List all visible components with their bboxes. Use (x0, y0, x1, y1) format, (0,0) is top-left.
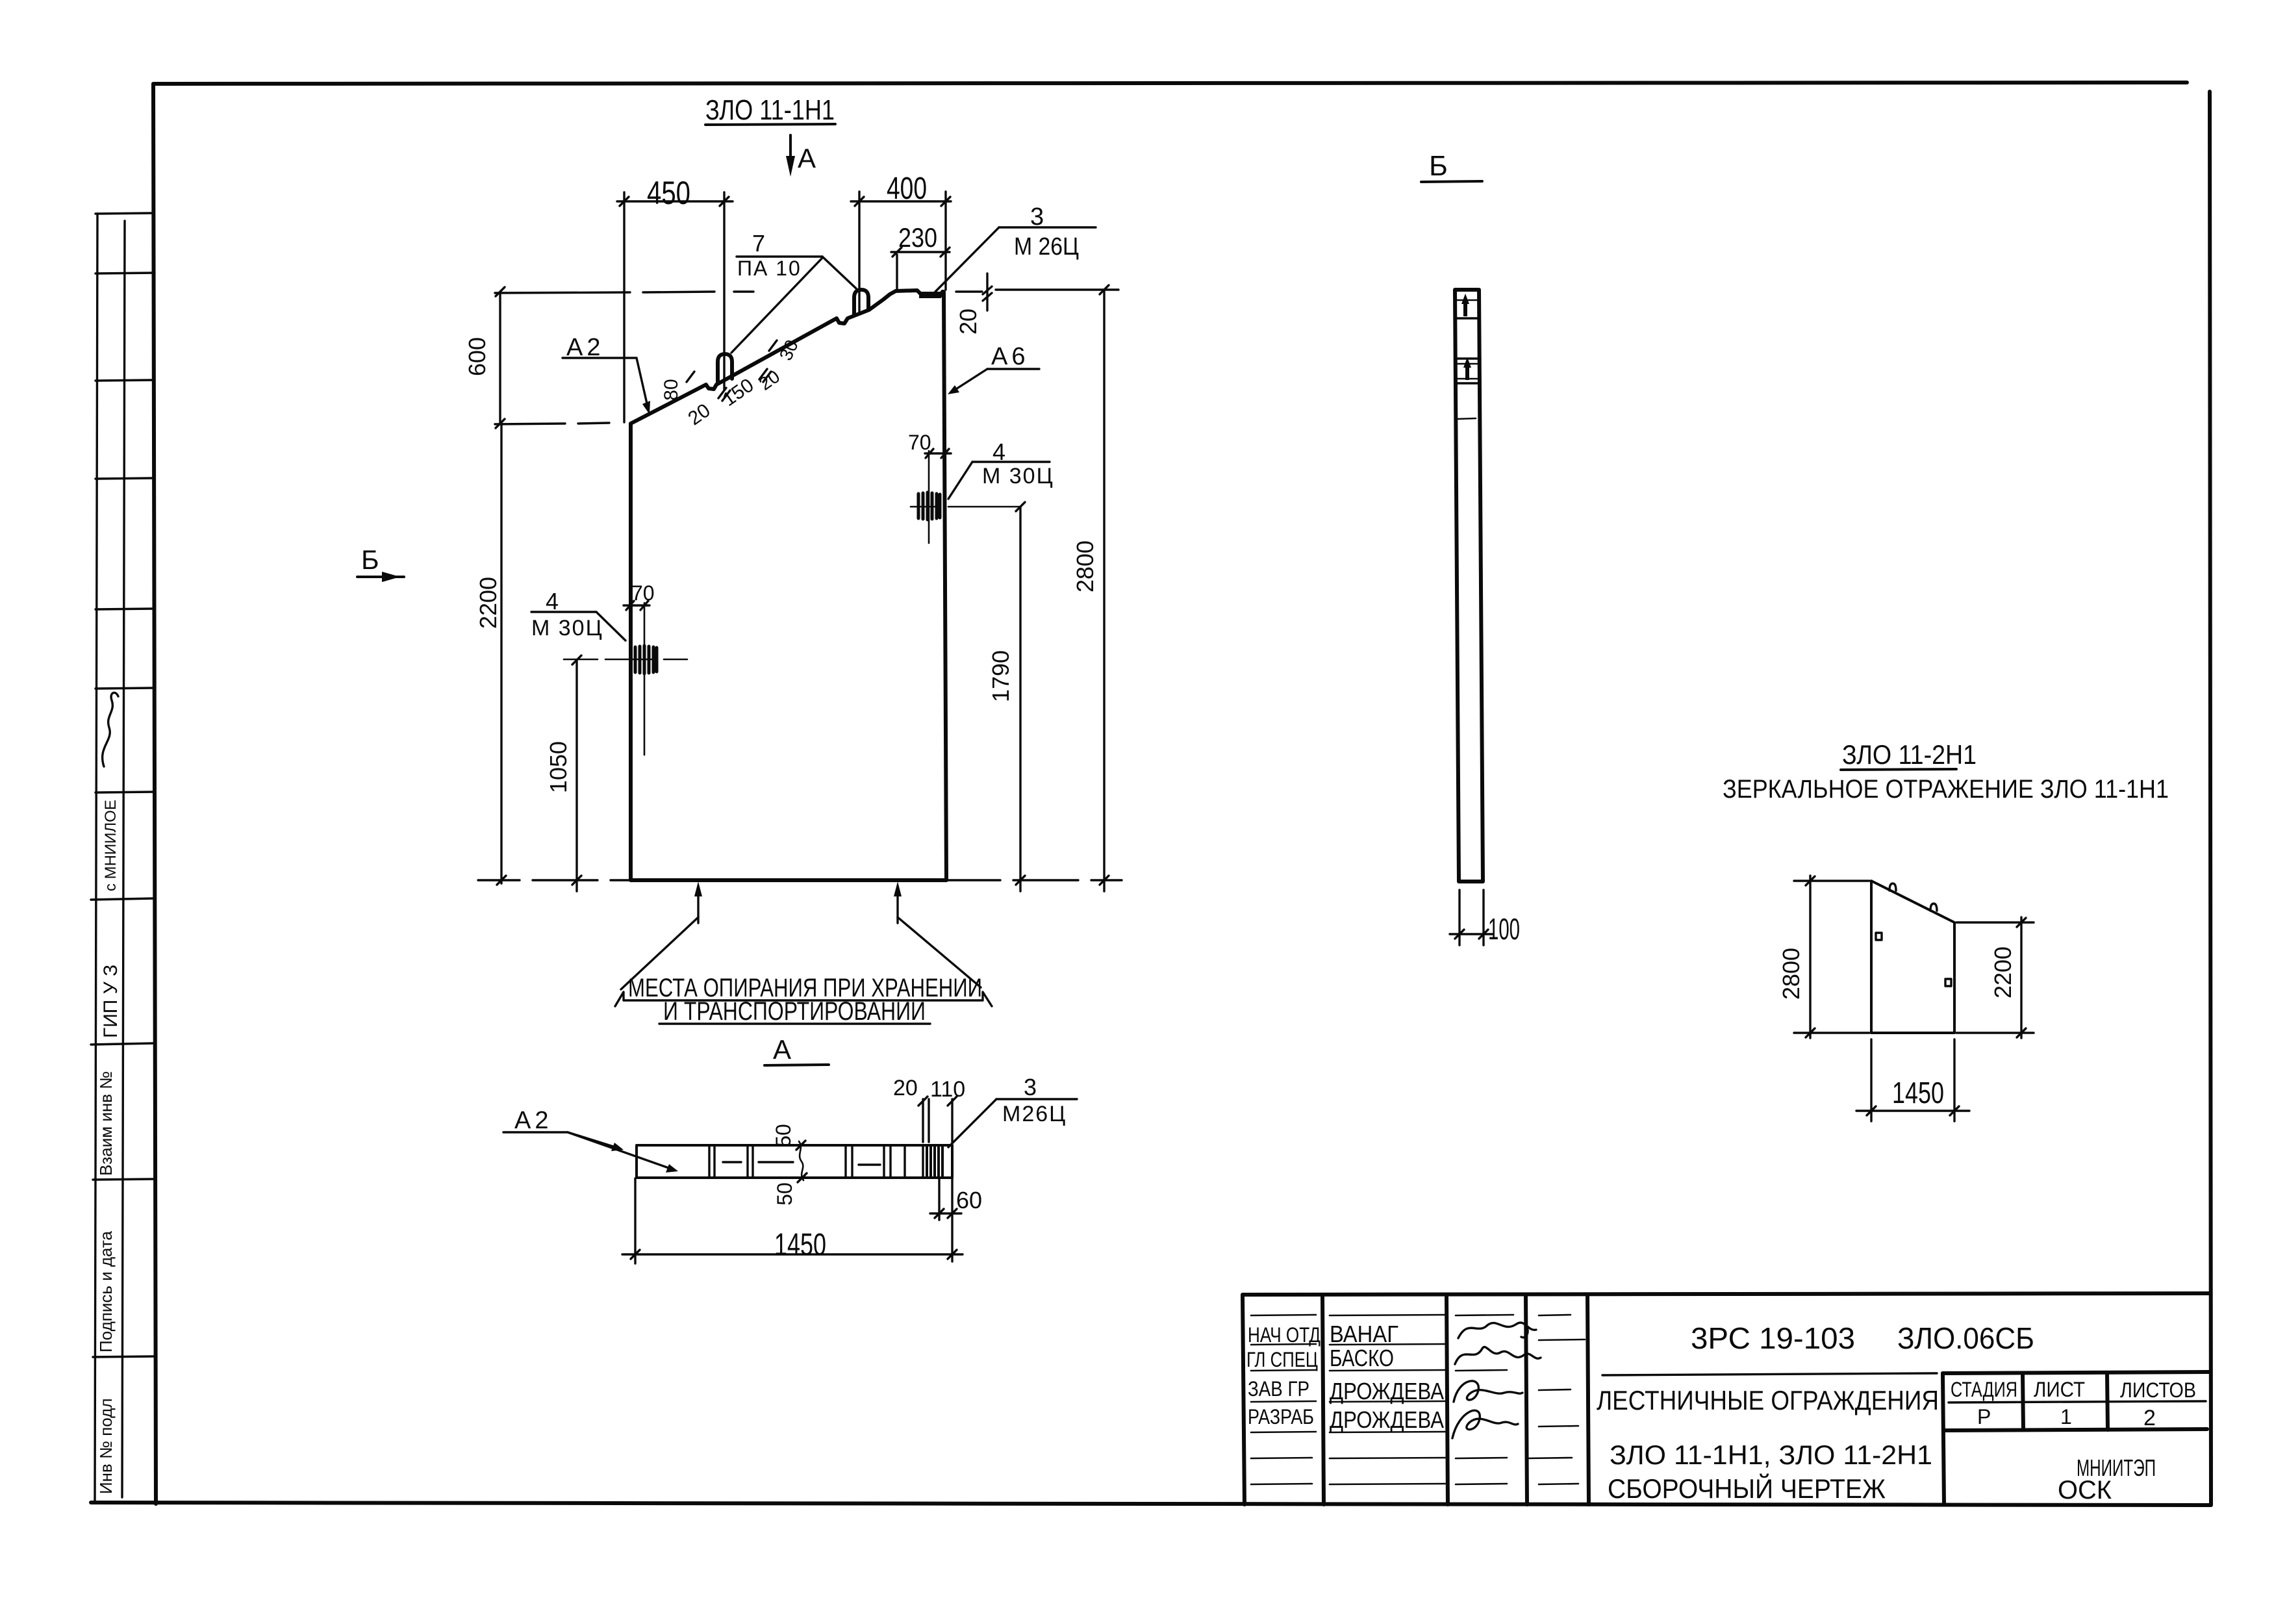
section A cell dash 3 (859, 1163, 880, 1165)
dim 70 right tick a (926, 449, 933, 458)
dim 2800 line (1103, 290, 1105, 891)
title block column divider 4 (1587, 1295, 1589, 1504)
label A2 section arrowhead b (666, 1164, 678, 1173)
svg-text:110: 110 (930, 1077, 965, 1102)
left stamp field line 11 (93, 1356, 154, 1357)
dim 60 tick a (935, 1209, 944, 1218)
section B strip line y645 (1457, 418, 1476, 419)
svg-text:БАСКО: БАСКО (1330, 1345, 1394, 1371)
dim 1450 section tick left (631, 1250, 640, 1259)
stamp row line r2 col4 (1539, 1339, 1585, 1340)
dim 100 tick left (1455, 930, 1464, 939)
dim 110 section extension (951, 1099, 953, 1142)
mirror dim 2800 tick bottom (1806, 1028, 1815, 1037)
svg-text:1790: 1790 (987, 650, 1014, 702)
dim 70 left tick b (640, 601, 648, 610)
svg-text:70: 70 (631, 581, 655, 605)
slope tick 20-150 boundary b (722, 390, 730, 401)
svg-text:2: 2 (2143, 1406, 2156, 1430)
label 4 left leader (596, 612, 625, 641)
dim 450 tick left (620, 197, 629, 206)
stamp row line r6 col1 (1251, 1458, 1312, 1458)
dim 450 extension left (623, 192, 625, 422)
svg-text:с МНИИЛОЕ: с МНИИЛОЕ (102, 800, 120, 891)
svg-text:4: 4 (546, 588, 559, 615)
svg-text:1450: 1450 (774, 1228, 826, 1262)
section A joint line 2a (746, 1145, 748, 1178)
svg-text:20: 20 (893, 1076, 918, 1100)
label A2 section underline (503, 1131, 568, 1133)
section A plate hatch (927, 1146, 942, 1177)
svg-text:1: 1 (2060, 1405, 2072, 1428)
section B title underline (1421, 181, 1482, 182)
main view title underline (705, 124, 835, 125)
stamp signature 1 (1458, 1323, 1536, 1338)
title block column divider 1 (1322, 1295, 1324, 1504)
top level extension to 2800 dim (996, 288, 1118, 290)
section mark A line (789, 135, 792, 162)
title block top line (1243, 1293, 2210, 1295)
svg-text:М26Ц: М26Ц (1002, 1102, 1067, 1126)
svg-text:ЗЛО 11-1Н1: ЗЛО 11-1Н1 (705, 94, 835, 126)
svg-text:ГЛ СПЕЦ: ГЛ СПЕЦ (1246, 1348, 1318, 1371)
title block column divider 2 (1447, 1295, 1448, 1504)
svg-text:3: 3 (1024, 1074, 1037, 1100)
stamp row line r5 col4 (1539, 1426, 1578, 1427)
svg-text:Взаим инв №: Взаим инв № (96, 1071, 116, 1176)
svg-text:600: 600 (464, 337, 490, 376)
section B loop anchor mark 1 (1461, 294, 1469, 316)
dim 60 tick b (948, 1209, 957, 1218)
extension line top right level (495, 292, 753, 293)
border frame left line (153, 84, 156, 1504)
dim 1790 tick top (1016, 502, 1025, 511)
dim 70 right tick b (941, 449, 949, 458)
lifting loop hook 2 (854, 290, 868, 315)
stamp signature 4 (1452, 1410, 1518, 1438)
label 3 underline (999, 226, 1096, 228)
stamp row line r7 col4 (1539, 1484, 1578, 1484)
svg-text:2200: 2200 (1990, 946, 2016, 998)
dim 50 tick lower (798, 1173, 807, 1182)
svg-text:50: 50 (772, 1124, 795, 1147)
dim 1050 tick top (572, 655, 581, 665)
svg-text:ВАНАГ: ВАНАГ (1330, 1321, 1398, 1347)
svg-text:М 30Ц: М 30Ц (982, 464, 1054, 488)
stamp signature 3 (1454, 1381, 1523, 1402)
stamp row line r4 col2 (1330, 1401, 1445, 1402)
svg-text:СТАДИЯ: СТАДИЯ (1951, 1378, 2017, 1401)
dim 2800 tick top (1100, 285, 1109, 294)
svg-text:ЗЛО 11-1Н1, ЗЛО 11-2Н1: ЗЛО 11-1Н1, ЗЛО 11-2Н1 (1610, 1440, 1932, 1470)
svg-text:ЗЕРКАЛЬНОЕ ОТРАЖЕНИЕ ЗЛО 11-1Н: ЗЕРКАЛЬНОЕ ОТРАЖЕНИЕ ЗЛО 11-1Н1 (1723, 775, 2169, 804)
section B loop anchor mark 2 (1463, 357, 1471, 380)
mirror dim 1450 extension right (1953, 1039, 1955, 1121)
left stamp field line 3 (95, 380, 154, 381)
svg-text:60: 60 (956, 1187, 982, 1213)
label 3 section underline (996, 1098, 1077, 1100)
slope tick 30 boundary (769, 340, 777, 351)
dim 1050 tick bottom (572, 876, 581, 885)
section A joint line 1a (708, 1145, 710, 1178)
label A2 leader (637, 358, 648, 409)
mini table header underline (1949, 1401, 2206, 1402)
label A6 arrowhead (948, 385, 959, 394)
svg-text:Подпись и дата: Подпись и дата (96, 1230, 116, 1352)
stamp row line r3 col2 (1330, 1370, 1445, 1371)
dim 60 extension right (951, 1178, 953, 1262)
dim 400 line (851, 200, 951, 202)
svg-text:70: 70 (908, 431, 931, 454)
dim 20 section extension b (928, 1099, 929, 1142)
lifting loop hook 1 (718, 354, 732, 383)
stamp row line r3 col1 (1251, 1370, 1316, 1371)
bottom extension line left (478, 879, 629, 881)
mirror dim 1450 extension left (1870, 1039, 1872, 1121)
mirror dim 2800 extension bottom (1794, 1032, 1869, 1034)
dim 450 tick right (720, 197, 729, 206)
dim 20-110 ticks (918, 1097, 957, 1106)
border frame top line (155, 82, 2187, 84)
left stamp field line 2 (95, 273, 155, 273)
stamp row line r6 col3 (1456, 1458, 1507, 1458)
section mark B arrowhead (382, 572, 400, 582)
section B strip line y590 (1456, 382, 1480, 384)
left stamp field line 9 (91, 1043, 154, 1045)
support leader right (898, 917, 981, 987)
label 7 leader to hook2 (822, 257, 856, 288)
mirror title underline (1841, 769, 1956, 770)
slope tick 20-150 boundary a (718, 388, 726, 398)
slope tick 80 boundary (687, 372, 694, 382)
stamp row line r6 col2 (1330, 1458, 1445, 1458)
mirror hook 1 (1889, 883, 1896, 891)
dim 600 line (499, 292, 501, 424)
dim 230 tick left (892, 247, 902, 257)
left stamp field line 4 (95, 478, 154, 479)
mini table divider 2 (2107, 1373, 2108, 1430)
title block divider under doc number (1602, 1373, 1937, 1375)
section A cell dash 1 (723, 1161, 741, 1163)
dim 2800 tick bottom (1100, 876, 1109, 885)
label 4 left underline (531, 611, 596, 613)
dim 1450 section tick right (948, 1250, 957, 1259)
right anchor vertical centerline (928, 451, 930, 543)
svg-text:2200: 2200 (475, 577, 501, 629)
dim 400 extension right (944, 192, 946, 290)
left anchor vertical centerline (644, 603, 646, 755)
left stamp field line 6 (95, 688, 154, 689)
left stamp field line 5 (95, 609, 154, 609)
svg-text:2800: 2800 (1072, 540, 1098, 592)
dim 230 tick right (941, 247, 950, 257)
stamp row line r1 top col1 (1251, 1315, 1316, 1315)
dim 100 tick right (1479, 930, 1488, 939)
svg-text:СБОРОЧНЫЙ ЧЕРТЕЖ: СБОРОЧНЫЙ ЧЕРТЕЖ (1608, 1473, 1886, 1504)
svg-text:М 30Ц: М 30Ц (531, 616, 603, 641)
mirror dim 2800 tick top (1806, 876, 1815, 885)
svg-text:3РС 19-103: 3РС 19-103 (1691, 1321, 1855, 1355)
dim 1790 line (1019, 507, 1021, 891)
svg-text:400: 400 (887, 171, 927, 206)
section B strip line y490 (1456, 317, 1480, 319)
svg-text:ОСК: ОСК (2058, 1476, 2112, 1504)
stamp row line r5 col2 (1330, 1432, 1445, 1432)
section A joint line 2b (752, 1145, 753, 1178)
svg-text:50: 50 (773, 1182, 796, 1206)
svg-text:ЗЛО.06СБ: ЗЛО.06СБ (1897, 1321, 2034, 1355)
title block left edge (1243, 1295, 1245, 1504)
note banner line 2 (659, 1022, 930, 1024)
right anchor M30C hatched block (918, 492, 940, 520)
slope tick 150-20 boundary a (759, 369, 767, 379)
label A2 section leader a (568, 1132, 620, 1148)
svg-text:ЗЛО 11-2Н1: ЗЛО 11-2Н1 (1842, 739, 1977, 770)
stamp row line r3 col3 (1456, 1370, 1507, 1371)
dim 450 line (617, 200, 733, 202)
svg-text:ДРОЖДЕВА: ДРОЖДЕВА (1330, 1406, 1444, 1433)
stamp row line r1 top col2 (1330, 1315, 1445, 1315)
panel outline (631, 290, 946, 880)
section A joint line 4a (883, 1145, 885, 1178)
svg-text:Р: Р (1977, 1405, 1991, 1428)
mirror dim 2200 extension bottom (1956, 1032, 2034, 1034)
stamp signature 2 (1455, 1347, 1541, 1364)
dim 70 left line (624, 604, 650, 606)
svg-text:А: А (773, 1034, 791, 1065)
dim 20 section extension a (922, 1099, 924, 1142)
svg-text:450: 450 (647, 175, 690, 211)
svg-text:ЛЕСТНИЧНЫЕ ОГРАЖДЕНИЯ: ЛЕСТНИЧНЫЕ ОГРАЖДЕНИЯ (1597, 1385, 1939, 1415)
dim 20 notch slash (983, 286, 992, 301)
svg-text:2800: 2800 (1778, 948, 1804, 1000)
mirror dim 1450 tick right (1950, 1106, 1959, 1115)
section A joint line 3a (844, 1145, 846, 1178)
svg-text:1050: 1050 (545, 741, 572, 793)
svg-text:1450: 1450 (1892, 1076, 1944, 1110)
dim 1450 section line (622, 1253, 963, 1255)
mirror panel outline (1871, 881, 1954, 1033)
svg-text:230: 230 (898, 222, 937, 253)
right anchor horizontal centerline (911, 506, 1019, 508)
mirror dim 2200 line (2020, 917, 2022, 1038)
section B strip line y462 (1456, 299, 1480, 301)
dim 400 tick left (855, 197, 864, 206)
mirror dim 2800 extension top (1794, 880, 1869, 882)
left stamp strip inner divider (122, 221, 125, 1497)
mirror anchor square right (1945, 979, 1951, 986)
dim 100 line (1450, 933, 1493, 935)
stamp row line r1 top col3 (1456, 1315, 1513, 1315)
svg-text:ЗАВ ГР: ЗАВ ГР (1248, 1377, 1309, 1401)
dim 230 line (891, 251, 950, 253)
border frame bottom line (91, 1503, 2211, 1505)
stamp row line r2 col1 (1251, 1344, 1316, 1345)
section A joint line 5 (903, 1145, 905, 1178)
section B strip outline (1455, 290, 1483, 882)
dim 20 notch vertical tick (986, 273, 988, 311)
svg-text:80: 80 (661, 379, 682, 400)
stamp row line r7 col2 (1330, 1484, 1445, 1484)
stamp row line r1 top col4 (1539, 1315, 1571, 1315)
label A2 section arrowhead a (611, 1143, 624, 1151)
slope tick 150-20 boundary b (763, 372, 771, 382)
left stamp field line 7 (95, 792, 154, 793)
dim 1450 section extension left (634, 1178, 636, 1263)
mirror dim 2800 line (1809, 876, 1811, 1038)
left stamp strip outer line (95, 214, 97, 1503)
svg-text:РАЗРАБ: РАЗРАБ (1248, 1405, 1314, 1428)
note banner line 1 (615, 992, 992, 1006)
stamp row line r6 col4 (1526, 1458, 1572, 1458)
dim 20 notch line (956, 290, 982, 292)
svg-text:100: 100 (1488, 912, 1520, 946)
svg-text:ПА 10: ПА 10 (737, 257, 802, 280)
support point arrow 1 line (697, 889, 699, 923)
bottom extension line right (948, 879, 1122, 881)
svg-text:А2: А2 (514, 1107, 552, 1134)
svg-text:ГИП У З: ГИП У З (100, 965, 121, 1038)
label A2 section leader b (568, 1132, 674, 1170)
svg-text:А6: А6 (991, 343, 1029, 370)
dim 100 extension left (1458, 890, 1460, 945)
svg-text:ДРОЖДЕВА: ДРОЖДЕВА (1330, 1378, 1444, 1404)
svg-text:20: 20 (955, 309, 981, 335)
support point arrow 2 head (894, 882, 902, 896)
section A joint line 3b (851, 1145, 853, 1178)
dim 600 tick bottom (496, 419, 505, 428)
support point arrow 2 line (896, 889, 898, 923)
title block column divider 3 (1526, 1295, 1527, 1504)
section mark B underline (357, 576, 404, 578)
dim 60 line (930, 1212, 961, 1214)
section B strip line y583 (1456, 378, 1480, 380)
left stamp field line 1 (95, 213, 154, 214)
dim 400 tick right (941, 197, 950, 206)
section A joint line 4b (889, 1145, 891, 1178)
mirror hook 2 (1930, 904, 1937, 911)
section B strip line y552 (1456, 357, 1480, 359)
svg-text:7: 7 (752, 230, 765, 257)
label 7 underline (737, 255, 822, 257)
dim 2200 tick bottom (497, 876, 506, 885)
stamp row line r5 col1 (1251, 1432, 1316, 1432)
mini table row line (1943, 1429, 2207, 1430)
section A break squiggle (799, 1141, 803, 1180)
label A6 underline (987, 368, 1039, 370)
label 4 right underline (972, 461, 1050, 463)
dim 70 left tick a (626, 601, 634, 610)
dim 1050 line (575, 660, 577, 891)
svg-text:А: А (798, 143, 816, 173)
dim 230 extension left (896, 255, 898, 290)
mirror dim 1450 tick left (1867, 1106, 1876, 1115)
dim 70 right line (925, 452, 951, 454)
section A joint line 1b (713, 1145, 715, 1178)
svg-text:НАЧ ОТД: НАЧ ОТД (1248, 1323, 1320, 1347)
label A2 arrowhead (642, 401, 650, 414)
mirror dim 1450 line (1856, 1110, 1969, 1111)
svg-text:ЛИСТОВ: ЛИСТОВ (2120, 1378, 2196, 1402)
left anchor horizontal centerline (564, 659, 687, 661)
section B strip line y560 (1456, 363, 1480, 365)
section A cell dash 2 (759, 1161, 793, 1163)
dim 2200 line (500, 424, 502, 883)
dim 100 extension right (1482, 890, 1484, 945)
section mark A arrowhead (786, 156, 795, 177)
mini table divider 1 (2023, 1373, 2023, 1430)
label A2 underline (562, 357, 637, 359)
mini table top line (1943, 1372, 2210, 1373)
section A bar outline (637, 1145, 952, 1178)
border frame right line (2210, 92, 2211, 1504)
mini table left edge (1943, 1373, 1944, 1504)
stamp row line r4 col1 (1251, 1401, 1316, 1402)
label A6 leader (951, 369, 987, 392)
dim 600 tick top (496, 287, 505, 296)
mirror dim 2200 extension top (1956, 921, 2034, 923)
left anchor M30C hatched block (635, 646, 657, 674)
svg-text:М 26Ц: М 26Ц (1014, 233, 1079, 260)
mirror dim 2200 tick top (2017, 918, 2026, 927)
extension line top left corner level (495, 423, 609, 424)
mirror dim 2200 tick bottom (2017, 1028, 2026, 1037)
hook1 centerline extension (723, 192, 725, 390)
stamp row line r7 col3 (1456, 1484, 1507, 1484)
label 7 leader to hook1 (731, 258, 822, 353)
svg-text:Б: Б (1429, 150, 1448, 182)
mirror anchor square left (1876, 933, 1882, 940)
svg-text:Б: Б (361, 544, 379, 575)
stamp row line r4 col4 (1539, 1389, 1571, 1390)
support point arrow 1 head (694, 882, 702, 896)
section A title underline (764, 1065, 829, 1065)
left stamp field line 8 (91, 898, 154, 900)
dim 60 line vertical (938, 1178, 940, 1220)
dim 1790 tick bottom (1016, 876, 1025, 885)
svg-text:Инв № подл: Инв № подл (96, 1398, 116, 1494)
label 3 leader (935, 227, 999, 292)
dim 50 tick upper (796, 1141, 805, 1150)
hook2 centerline extension (858, 192, 860, 314)
stamp row line r2 col2 (1330, 1344, 1445, 1345)
svg-text:ЛИСТ: ЛИСТ (2034, 1378, 2085, 1401)
stamp row line r7 col1 (1251, 1484, 1312, 1484)
label 4 right leader (948, 462, 972, 499)
embedded plate M26C black bar in notch (919, 292, 941, 298)
support leader left (621, 917, 698, 989)
section A joint line 6 (922, 1145, 924, 1178)
left stamp signature squiggle (103, 692, 118, 767)
label 3 section leader (948, 1099, 996, 1147)
left stamp field line 10 (93, 1179, 154, 1180)
